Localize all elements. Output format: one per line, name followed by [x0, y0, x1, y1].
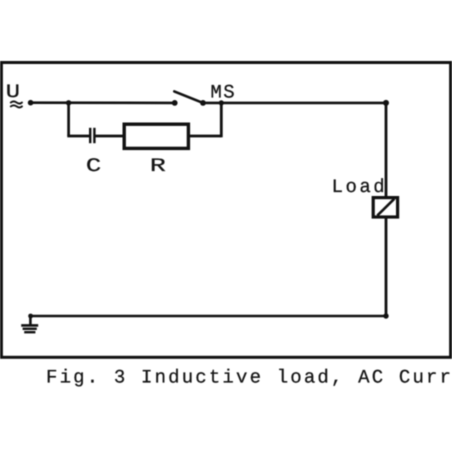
- svg-text:R: R: [150, 155, 166, 177]
- wire: bottom return: [31, 315, 386, 318]
- wire: capacitor to resistor: [95, 135, 124, 138]
- wire: right drop to load: [385, 103, 388, 197]
- svg-text:MS: MS: [210, 81, 236, 103]
- wire: switch to top-right corner: [203, 102, 386, 105]
- svg-text:Load: Load: [332, 176, 388, 198]
- ground bar 2: [23, 328, 37, 330]
- wire: branch to capacitor: [67, 135, 89, 138]
- node junction dot (riser / main line): [219, 100, 224, 105]
- svg-text:U: U: [6, 81, 20, 103]
- wire: riser up to main line: [220, 103, 223, 137]
- load box: [373, 198, 397, 217]
- wire: load to bottom corner: [385, 217, 388, 316]
- capacitor C plates: [90, 128, 94, 143]
- svg-text:C: C: [86, 155, 101, 177]
- ground bar 3: [24, 331, 35, 333]
- ground stub: [29, 316, 32, 325]
- border frame: [1, 63, 450, 358]
- switch MS right contact: [200, 100, 206, 106]
- source terminal dot: [28, 100, 34, 106]
- resistor R body: [124, 124, 188, 148]
- bottom-right junction dot: [383, 313, 388, 318]
- top-right corner dot: [383, 100, 389, 106]
- switch MS blade: [174, 91, 203, 103]
- switch MS left contact: [172, 100, 178, 106]
- load diagonal: [377, 199, 394, 216]
- wire: source to switch left contact: [31, 101, 175, 104]
- ground bar 1: [21, 324, 38, 327]
- svg-text:Fig. 3 Inductive load, AC Curr: Fig. 3 Inductive load, AC Curr: [46, 366, 452, 388]
- wire: branch down from node: [67, 103, 70, 136]
- node junction dot (branch tap): [66, 100, 71, 105]
- AC symbol ≈: [11, 101, 22, 107]
- ground node dot: [28, 314, 33, 319]
- wire: resistor to riser: [190, 135, 221, 138]
